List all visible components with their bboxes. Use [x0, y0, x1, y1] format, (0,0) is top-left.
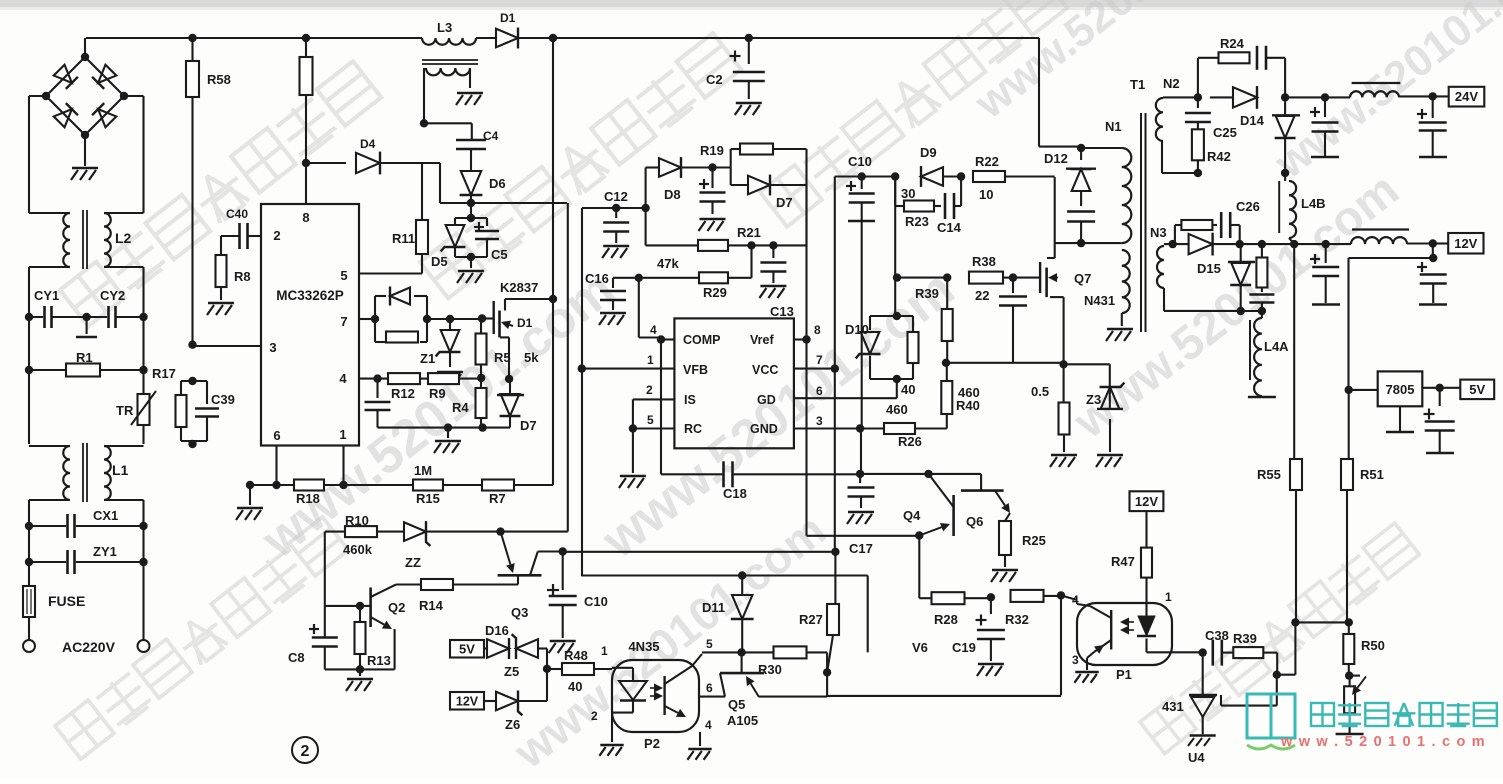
svg-text:Vref: Vref — [750, 333, 774, 347]
svg-text:R55: R55 — [1257, 467, 1281, 482]
svg-text:COMP: COMP — [683, 333, 721, 347]
svg-text:D6: D6 — [489, 176, 506, 191]
svg-text:R32: R32 — [1005, 612, 1029, 627]
svg-text:D16: D16 — [485, 623, 509, 638]
svg-text:3: 3 — [816, 414, 823, 428]
svg-text:C25: C25 — [1213, 125, 1237, 140]
svg-text:R47: R47 — [1111, 554, 1135, 569]
svg-text:VCC: VCC — [752, 363, 778, 377]
svg-text:N2: N2 — [1163, 76, 1180, 91]
svg-text:6: 6 — [816, 384, 823, 398]
svg-text:D11: D11 — [702, 600, 725, 615]
svg-text:C19: C19 — [952, 640, 976, 655]
svg-text:22: 22 — [975, 288, 989, 303]
svg-text:R13: R13 — [367, 653, 391, 668]
svg-text:460k: 460k — [343, 542, 373, 557]
svg-text:C26: C26 — [1236, 199, 1260, 214]
svg-text:Z3: Z3 — [1086, 392, 1101, 407]
svg-text:40: 40 — [568, 679, 582, 694]
svg-text:D4: D4 — [360, 137, 376, 151]
svg-text:5: 5 — [647, 413, 654, 427]
svg-text:12V: 12V — [456, 695, 479, 709]
svg-text:Q5: Q5 — [728, 697, 745, 712]
svg-text:R21: R21 — [737, 225, 761, 240]
svg-text:Z5: Z5 — [504, 664, 519, 679]
svg-text:6: 6 — [273, 428, 280, 443]
svg-text:8: 8 — [814, 323, 821, 337]
svg-text:5: 5 — [340, 268, 347, 283]
svg-text:7: 7 — [340, 314, 347, 329]
svg-text:12V: 12V — [1135, 494, 1158, 509]
svg-text:C12: C12 — [604, 189, 628, 204]
svg-text:C40: C40 — [226, 207, 248, 221]
svg-text:R11: R11 — [392, 231, 415, 246]
svg-text:12V: 12V — [1454, 236, 1477, 251]
svg-text:K2837: K2837 — [500, 280, 538, 295]
svg-text:R1: R1 — [76, 350, 93, 365]
svg-text:431: 431 — [1162, 699, 1184, 714]
svg-text:L2: L2 — [115, 230, 132, 246]
svg-text:N3: N3 — [1150, 225, 1167, 240]
svg-text:7805: 7805 — [1386, 382, 1415, 397]
svg-text:C18: C18 — [723, 486, 747, 501]
svg-text:ZZ: ZZ — [405, 555, 421, 570]
svg-text:2: 2 — [591, 709, 598, 723]
svg-text:T1: T1 — [1130, 77, 1145, 92]
svg-text:1M: 1M — [414, 463, 432, 478]
svg-text:8: 8 — [302, 210, 309, 225]
svg-text:L3: L3 — [437, 20, 452, 35]
svg-text:1: 1 — [647, 353, 654, 367]
svg-text:D15: D15 — [1197, 261, 1221, 276]
svg-text:R22: R22 — [975, 154, 999, 169]
svg-text:1: 1 — [601, 644, 608, 658]
svg-text:C4: C4 — [483, 129, 499, 143]
svg-text:C38: C38 — [1205, 628, 1229, 643]
svg-text:D8: D8 — [664, 187, 681, 202]
svg-text:V6: V6 — [912, 640, 928, 655]
svg-text:D5: D5 — [431, 254, 448, 269]
svg-text:w w w . 5 2 0 1 0 1 . c o m: w w w . 5 2 0 1 0 1 . c o m — [1280, 734, 1486, 750]
svg-text:3: 3 — [1072, 653, 1079, 667]
svg-text:R26: R26 — [898, 434, 922, 449]
svg-text:4N35: 4N35 — [628, 639, 659, 654]
svg-text:R8: R8 — [234, 269, 251, 284]
svg-text:U4: U4 — [1188, 750, 1205, 765]
svg-text:D12: D12 — [1044, 151, 1068, 166]
svg-text:R39: R39 — [1233, 631, 1257, 646]
svg-text:C16: C16 — [585, 271, 609, 286]
svg-text:2: 2 — [273, 228, 280, 243]
svg-text:R58: R58 — [207, 72, 231, 87]
svg-text:Q4: Q4 — [903, 508, 921, 523]
svg-text:R7: R7 — [489, 491, 506, 506]
svg-text:CY1: CY1 — [34, 288, 59, 303]
svg-text:R29: R29 — [703, 285, 727, 300]
svg-text:C8: C8 — [288, 650, 305, 665]
svg-text:GD: GD — [757, 393, 776, 407]
svg-text:R40: R40 — [956, 398, 980, 413]
svg-text:VFB: VFB — [683, 363, 708, 377]
svg-text:D7: D7 — [776, 195, 793, 210]
svg-text:P2: P2 — [644, 736, 660, 751]
svg-text:R48: R48 — [564, 648, 588, 663]
svg-text:C5: C5 — [491, 247, 508, 262]
svg-text:6: 6 — [706, 681, 713, 695]
svg-text:N1: N1 — [1105, 119, 1122, 134]
svg-text:C14: C14 — [937, 220, 962, 235]
svg-text:IS: IS — [684, 393, 696, 407]
svg-text:L4B: L4B — [1301, 196, 1326, 211]
svg-text:TR: TR — [116, 403, 134, 418]
svg-text:R18: R18 — [296, 491, 320, 506]
svg-text:R9: R9 — [429, 386, 446, 401]
svg-text:R15: R15 — [416, 491, 440, 506]
svg-text:R12: R12 — [391, 386, 415, 401]
svg-text:D1: D1 — [500, 11, 516, 25]
svg-text:30: 30 — [901, 186, 915, 201]
svg-text:R24: R24 — [1220, 36, 1245, 51]
svg-text:R38: R38 — [972, 254, 996, 269]
svg-text:2: 2 — [646, 383, 653, 397]
svg-text:10: 10 — [979, 187, 993, 202]
svg-text:460: 460 — [886, 402, 908, 417]
svg-text:5V: 5V — [1469, 382, 1485, 397]
svg-text:AC220V: AC220V — [62, 639, 116, 655]
svg-text:Q3: Q3 — [511, 605, 528, 620]
svg-text:R42: R42 — [1207, 149, 1231, 164]
svg-text:R27: R27 — [799, 612, 823, 627]
svg-text:5: 5 — [706, 637, 713, 651]
svg-text:P1: P1 — [1116, 667, 1132, 682]
svg-text:R51: R51 — [1360, 467, 1384, 482]
svg-text:1: 1 — [1165, 590, 1172, 604]
svg-text:D1: D1 — [517, 316, 533, 330]
svg-text:MC33262P: MC33262P — [276, 288, 344, 303]
svg-text:R25: R25 — [1022, 533, 1046, 548]
svg-text:4: 4 — [1072, 593, 1079, 607]
svg-text:L1: L1 — [112, 462, 129, 478]
svg-text:R14: R14 — [419, 598, 444, 613]
svg-text:40: 40 — [901, 382, 915, 397]
svg-text:R28: R28 — [934, 612, 958, 627]
svg-text:D9: D9 — [920, 145, 937, 160]
svg-text:1: 1 — [339, 427, 346, 442]
svg-text:0.5: 0.5 — [1031, 384, 1049, 399]
svg-text:ZY1: ZY1 — [93, 544, 117, 559]
svg-text:D10: D10 — [845, 322, 869, 337]
svg-text:CX1: CX1 — [93, 508, 118, 523]
svg-text:GND: GND — [750, 422, 778, 436]
svg-text:C2: C2 — [706, 72, 723, 87]
svg-text:4: 4 — [339, 371, 347, 386]
svg-text:Q2: Q2 — [388, 600, 405, 615]
svg-text:47k: 47k — [657, 256, 679, 271]
svg-text:Q6: Q6 — [966, 514, 983, 529]
svg-text:R23: R23 — [905, 214, 929, 229]
svg-text:C17: C17 — [849, 541, 873, 556]
svg-text:R4: R4 — [452, 400, 469, 415]
svg-text:R19: R19 — [700, 143, 724, 158]
svg-text:R30: R30 — [758, 662, 782, 677]
svg-text:C13: C13 — [770, 304, 794, 319]
svg-text:5V: 5V — [459, 642, 475, 657]
svg-text:5k: 5k — [524, 350, 539, 365]
svg-text:A105: A105 — [727, 713, 758, 728]
svg-text:C10: C10 — [848, 154, 872, 169]
svg-text:4: 4 — [705, 718, 712, 732]
svg-text:N431: N431 — [1084, 293, 1115, 308]
svg-text:7: 7 — [816, 353, 823, 367]
svg-text:R39: R39 — [915, 286, 939, 301]
svg-text:3: 3 — [269, 340, 276, 355]
svg-text:FUSE: FUSE — [48, 593, 85, 609]
svg-text:Q7: Q7 — [1074, 271, 1091, 286]
svg-text:Z1: Z1 — [420, 351, 435, 366]
svg-text:R50: R50 — [1361, 638, 1385, 653]
svg-text:D7: D7 — [520, 418, 537, 433]
svg-text:CY2: CY2 — [100, 288, 125, 303]
svg-text:L4A: L4A — [1264, 339, 1289, 354]
svg-text:2: 2 — [301, 743, 310, 760]
svg-text:D14: D14 — [1240, 113, 1265, 128]
svg-text:C39: C39 — [211, 392, 235, 407]
svg-text:24V: 24V — [1455, 89, 1478, 104]
svg-text:4: 4 — [650, 323, 657, 337]
svg-text:R17: R17 — [152, 366, 176, 381]
svg-text:C10: C10 — [584, 594, 608, 609]
svg-text:R10: R10 — [345, 513, 369, 528]
svg-text:RC: RC — [684, 422, 702, 436]
svg-text:Z6: Z6 — [505, 717, 520, 732]
